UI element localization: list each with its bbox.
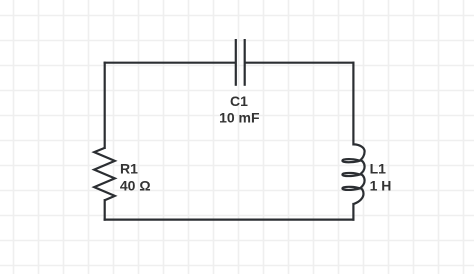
wire right-bottom segment [352,204,354,220]
svg-text:10 mF: 10 mF [219,110,260,126]
wire bottom segment [105,219,354,221]
inductor L1 [342,144,364,204]
svg-text:L1: L1 [370,160,387,176]
wire top-right segment [246,62,354,64]
svg-text:40 Ω: 40 Ω [120,177,151,193]
wire left-bottom segment [104,200,106,219]
wire top-left segment [105,62,235,64]
svg-text:R1: R1 [120,160,138,176]
resistor R1 [94,148,115,200]
svg-text:C1: C1 [230,93,248,109]
wire left-top segment [104,63,106,148]
svg-text:1 H: 1 H [370,177,392,193]
wire right-top segment [352,63,354,145]
capacitor C1 [236,39,245,86]
